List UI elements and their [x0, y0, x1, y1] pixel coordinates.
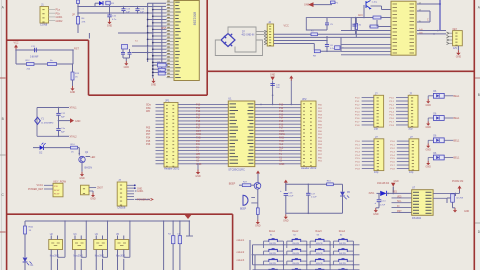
svg-text:GND: GND — [75, 120, 81, 123]
svg-text:Header 20X2: Header 20X2 — [164, 167, 180, 171]
svg-text:colum2: colum2 — [237, 251, 245, 254]
svg-text:POWER_DET: POWER_DET — [28, 188, 44, 191]
svg-text:Row1: Row1 — [269, 230, 276, 233]
svg-text:P1.6: P1.6 — [355, 162, 360, 164]
svg-text:Row3: Row3 — [316, 230, 323, 233]
svg-text:GND: GND — [255, 225, 261, 228]
svg-text:SW-PB: SW-PB — [292, 253, 299, 255]
svg-text:P1.2: P1.2 — [389, 104, 394, 106]
svg-text:12V: 12V — [453, 48, 458, 50]
svg-text:BEL1: BEL1 — [454, 95, 461, 98]
svg-text:GND1: GND1 — [137, 191, 144, 193]
svg-text:RST: RST — [162, 27, 167, 30]
svg-text:colum3: colum3 — [237, 259, 245, 262]
svg-text:P1.0: P1.0 — [355, 141, 360, 143]
svg-text:402-GND-IN: 402-GND-IN — [242, 35, 255, 37]
svg-text:SW-PB: SW-PB — [339, 243, 346, 245]
svg-text:GND: GND — [394, 181, 399, 183]
svg-text:GND: GND — [373, 213, 379, 216]
svg-text:SW-PB: SW-PB — [316, 253, 323, 255]
svg-text:0.68 MF: 0.68 MF — [30, 57, 39, 59]
svg-text:SW-PB: SW-PB — [269, 263, 276, 265]
svg-text:10p: 10p — [374, 127, 379, 131]
svg-text:ROW: ROW — [54, 190, 60, 192]
svg-text:P1.2: P1.2 — [355, 148, 360, 150]
svg-text:P1.5: P1.5 — [355, 158, 360, 160]
svg-text:P1.2: P1.2 — [390, 148, 395, 150]
svg-text:VCC: VCC — [284, 25, 289, 28]
svg-text:JP1: JP1 — [165, 99, 170, 103]
svg-text:colum1: colum1 — [237, 239, 245, 242]
svg-text:P1.6: P1.6 — [389, 118, 394, 120]
svg-text:P1.4: P1.4 — [355, 111, 360, 113]
svg-text:P1.3: P1.3 — [389, 108, 394, 110]
svg-text:SW-PB: SW-PB — [316, 263, 323, 265]
svg-text:P1b: P1b — [56, 12, 61, 15]
svg-text:GND: GND — [79, 177, 85, 180]
svg-text:STC89C51RC: STC89C51RC — [228, 167, 245, 171]
svg-text:P26: P26 — [146, 143, 151, 146]
svg-text:P1.7: P1.7 — [355, 122, 360, 124]
svg-text:GND: GND — [70, 91, 76, 94]
svg-text:GND: GND — [304, 4, 310, 7]
svg-text:P1.6: P1.6 — [390, 162, 395, 164]
svg-text:3VC1: 3VC1 — [369, 192, 376, 195]
svg-text:GND1: GND1 — [56, 16, 64, 19]
svg-text:47K: 47K — [82, 21, 86, 23]
svg-text:P1.6: P1.6 — [355, 118, 360, 120]
svg-text:BHCIN: BHCIN — [85, 166, 93, 169]
svg-text:P1.1: P1.1 — [390, 145, 395, 147]
svg-text:VE5: VE5 — [397, 196, 402, 198]
svg-text:ACC: ACC — [358, 14, 363, 17]
svg-text:1uF: 1uF — [140, 11, 144, 13]
svg-text:P1.5: P1.5 — [389, 115, 394, 117]
svg-text:GND: GND — [456, 56, 462, 59]
svg-text:GND: GND — [426, 148, 432, 151]
svg-text:1u: 1u — [159, 70, 161, 72]
svg-text:P1.1: P1.1 — [355, 101, 360, 103]
svg-text:P1.7: P1.7 — [389, 122, 394, 124]
svg-text:4.7uF: 4.7uF — [380, 205, 386, 207]
svg-text:XTAL2: XTAL2 — [70, 136, 78, 139]
svg-text:ROW: ROW — [54, 194, 60, 196]
svg-text:SW-PB: SW-PB — [339, 263, 346, 265]
svg-text:P1.1: P1.1 — [355, 145, 360, 147]
svg-text:P1.8: P1.8 — [355, 168, 360, 170]
svg-text:SW-PB: SW-PB — [292, 263, 299, 265]
svg-text:CN308: CN308 — [117, 206, 126, 210]
svg-text:BEL1: BEL1 — [454, 117, 461, 120]
svg-text:WR: WR — [146, 110, 150, 113]
svg-text:P1.2: P1.2 — [355, 104, 360, 106]
svg-text:SW-PB: SW-PB — [269, 243, 276, 245]
svg-text:CON8: CON8 — [40, 23, 48, 27]
svg-text:P1.8: P1.8 — [390, 168, 395, 170]
svg-text:Row4: Row4 — [339, 230, 346, 233]
svg-text:BEL1: BEL1 — [454, 157, 461, 160]
svg-text:GND: GND — [270, 75, 275, 77]
svg-text:10p: 10p — [409, 170, 414, 174]
svg-text:Header 20X2: Header 20X2 — [301, 166, 317, 170]
svg-text:GND: GND — [283, 220, 289, 223]
svg-text:P1.0: P1.0 — [355, 98, 360, 100]
svg-text:RST: RST — [74, 47, 79, 50]
svg-text:8901338: 8901338 — [193, 12, 197, 25]
svg-text:GND: GND — [90, 197, 96, 200]
svg-text:IO: IO — [397, 206, 400, 208]
svg-text:1-10a: 1-10a — [372, 2, 378, 4]
svg-text:P1.5: P1.5 — [390, 158, 395, 160]
svg-text:P1.0: P1.0 — [390, 141, 395, 143]
svg-text:JP2: JP2 — [302, 97, 307, 101]
svg-text:GND: GND — [107, 25, 113, 28]
svg-text:P1.7: P1.7 — [355, 165, 360, 167]
svg-text:P1.4: P1.4 — [355, 155, 360, 157]
svg-text:BEL1: BEL1 — [454, 139, 461, 142]
svg-text:VCC1: VCC1 — [37, 184, 44, 187]
svg-text:Row2: Row2 — [292, 230, 299, 233]
svg-text:GND: GND — [464, 211, 469, 213]
svg-text:P1.7: P1.7 — [390, 165, 395, 167]
svg-text:0.1uF: 0.1uF — [311, 197, 317, 199]
svg-text:10p: 10p — [408, 127, 413, 131]
svg-text:10uF: 10uF — [288, 196, 294, 198]
svg-text:P1.3: P1.3 — [355, 151, 360, 153]
svg-text:GND: GND — [195, 175, 201, 178]
svg-text:9pF: 9pF — [61, 132, 65, 134]
svg-text:32,768: 32,768 — [456, 198, 463, 200]
svg-text:DS1302: DS1302 — [412, 217, 422, 220]
svg-text:P1.5: P1.5 — [355, 115, 360, 117]
svg-text:P1.0: P1.0 — [389, 98, 394, 100]
svg-text:VE5: VE5 — [393, 192, 398, 194]
svg-text:GND: GND — [137, 188, 142, 190]
svg-text:BEEP: BEEP — [229, 182, 236, 185]
svg-text:GND: GND — [426, 165, 432, 168]
svg-text:R1A: R1A — [29, 226, 34, 229]
svg-text:BEEP: BEEP — [240, 209, 247, 211]
svg-text:SW-PB: SW-PB — [269, 253, 276, 255]
svg-text:11.0592MHZ: 11.0592MHZ — [41, 122, 54, 124]
svg-text:10p: 10p — [374, 170, 379, 174]
svg-text:GND: GND — [426, 126, 432, 129]
svg-text:1uF: 1uF — [126, 11, 130, 13]
svg-text:VCC: VCC — [13, 42, 18, 45]
svg-text:JP: JP — [72, 14, 75, 17]
svg-text:GND: GND — [124, 66, 130, 69]
svg-text:P1.4: P1.4 — [389, 111, 394, 113]
svg-text:P1.1: P1.1 — [389, 101, 394, 103]
svg-text:GND: GND — [426, 104, 432, 107]
svg-text:P1.8: P1.8 — [389, 125, 394, 127]
svg-text:P1a: P1a — [56, 9, 61, 12]
svg-text:XTAL1: XTAL1 — [70, 107, 78, 110]
svg-text:U1: U1 — [228, 97, 232, 101]
svg-text:9pF: 9pF — [61, 116, 65, 118]
svg-text:P1.3: P1.3 — [355, 108, 360, 110]
svg-text:LED: LED — [91, 156, 96, 159]
svg-text:P1.3: P1.3 — [390, 151, 395, 153]
svg-text:GND: GND — [151, 84, 157, 87]
svg-text:SW-PB: SW-PB — [292, 243, 299, 245]
svg-text:P1.4: P1.4 — [390, 155, 395, 157]
svg-text:GND: GND — [196, 163, 202, 166]
svg-text:GND2: GND2 — [56, 20, 64, 23]
svg-text:GND: GND — [279, 163, 285, 166]
svg-text:POWER_IN: POWER_IN — [137, 198, 150, 201]
svg-text:B: B — [2, 117, 4, 121]
svg-text:CN07: CN07 — [97, 187, 104, 190]
svg-text:SCL: SCL — [397, 201, 402, 203]
svg-text:SW-PB: SW-PB — [339, 253, 346, 255]
svg-text:1N4148 D4: 1N4148 D4 — [377, 182, 390, 185]
svg-text:PC832.1M: PC832.1M — [452, 180, 463, 183]
svg-text:SW-PB: SW-PB — [316, 243, 323, 245]
svg-text:P1.8: P1.8 — [355, 125, 360, 127]
